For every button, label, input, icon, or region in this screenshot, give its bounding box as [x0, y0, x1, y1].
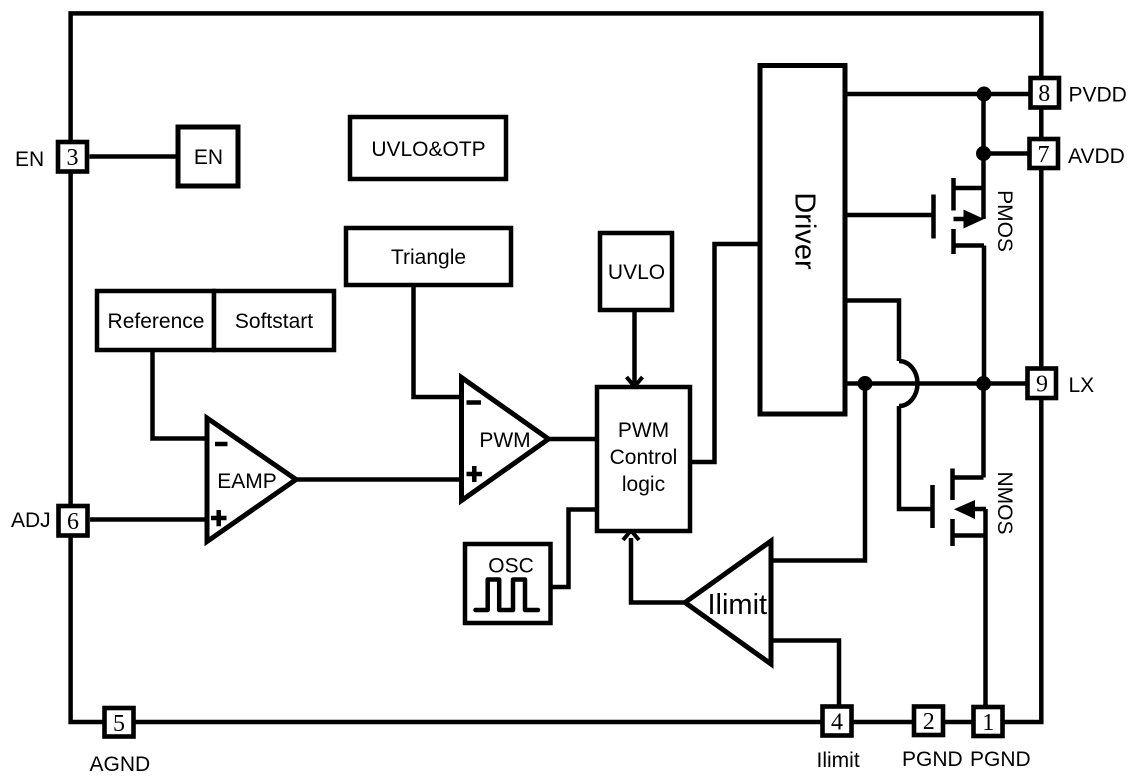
block EN: [178, 127, 238, 186]
wire NMOS source to pin1 PGND: [983, 509, 988, 705]
block Triangle: [346, 228, 511, 285]
wire hop over LX line: [899, 361, 918, 406]
svg-text:3: 3: [67, 145, 79, 171]
wire Driver to PMOS gate: [845, 213, 932, 218]
wire Triangle to PWM inverting input: [414, 285, 462, 397]
svg-text:PVDD: PVDD: [1069, 84, 1127, 107]
pin 1 PGND: [974, 707, 1003, 736]
svg-text:PGND: PGND: [970, 748, 1031, 771]
block Reference: [97, 291, 214, 350]
pin 5 AGND: [105, 708, 134, 737]
svg-text:5: 5: [113, 711, 125, 737]
block Softstart: [214, 291, 334, 350]
wire Reference to EAMP inverting input: [153, 350, 208, 439]
svg-text:Reference: Reference: [108, 310, 205, 333]
wire Ilimit output to PWM control logic: [631, 538, 685, 603]
wire PVDD node down to PMOS source: [981, 94, 986, 219]
svg-text:LX: LX: [1069, 374, 1095, 397]
svg-text:PGND: PGND: [902, 748, 963, 771]
block UVLO&OTP: [350, 117, 506, 179]
svg-text:ADJ: ADJ: [11, 509, 51, 532]
op-amp EAMP: [207, 418, 296, 542]
block OSC: [465, 544, 551, 623]
IC boundary: [71, 13, 1042, 722]
transistor Q2 NMOS: [933, 469, 987, 547]
svg-text:PWM: PWM: [479, 429, 530, 452]
wire Ilimit lower input to pin4: [771, 641, 839, 706]
svg-text:EN: EN: [15, 148, 44, 171]
wire UVLO to PWM control logic: [632, 310, 637, 383]
wire Driver to NMOS gate lower segment: [899, 406, 931, 509]
pin 9 LX: [1028, 369, 1057, 399]
svg-text:EAMP: EAMP: [217, 470, 277, 493]
svg-text:2: 2: [923, 709, 935, 735]
transistor Q1 PMOS body arrow: [964, 210, 985, 229]
svg-text:EN: EN: [194, 146, 223, 169]
svg-text:AVDD: AVDD: [1068, 145, 1125, 168]
svg-text:UVLO: UVLO: [608, 261, 665, 284]
wire PMOS drain to LX: [982, 246, 987, 384]
svg-text:1: 1: [982, 710, 994, 736]
svg-text:7: 7: [1038, 142, 1050, 168]
junction dot AVDD node: [976, 146, 991, 161]
block Driver: [760, 66, 845, 415]
svg-text:UVLO&OTP: UVLO&OTP: [371, 138, 485, 161]
block PWM Control logic: [597, 387, 690, 531]
comparator PWM: [462, 378, 549, 501]
wire PWM output to PWM control logic: [549, 437, 598, 442]
wire AVDD stub pin7: [984, 151, 1029, 156]
wire Driver to PVDD pin8: [845, 92, 1029, 97]
svg-text:Triangle: Triangle: [391, 246, 466, 269]
junction dot LX node right: [976, 376, 991, 391]
wire pin3 to EN block: [90, 154, 179, 159]
pin 6 ADJ: [59, 506, 88, 536]
junction dot PVDD node: [977, 87, 992, 102]
arrowhead UVLO into PWM control logic: [627, 377, 643, 387]
svg-text:8: 8: [1038, 81, 1050, 107]
svg-text:logic: logic: [622, 473, 665, 496]
svg-text:Ilimit: Ilimit: [707, 589, 767, 621]
wire LX to NMOS drain: [981, 384, 986, 478]
pin 4 Ilimit: [823, 707, 852, 736]
pin 8 PVDD: [1031, 78, 1060, 108]
svg-text:PWM: PWM: [618, 419, 669, 442]
svg-text:Driver: Driver: [789, 192, 821, 270]
transistor Q1 PMOS: [934, 178, 985, 254]
wire pin6 ADJ to EAMP non-inverting input: [90, 517, 207, 522]
pin 3 EN: [58, 142, 87, 172]
wire EAMP output to PWM comparator: [296, 477, 462, 482]
wire LX to Ilimit upper input: [771, 384, 865, 561]
wire Driver to NMOS gate upper segment: [845, 301, 899, 362]
svg-text:Ilimit: Ilimit: [817, 749, 860, 772]
transistor Q2 NMOS body arrow: [954, 500, 975, 519]
svg-text:9: 9: [1036, 372, 1048, 398]
svg-text:6: 6: [67, 509, 79, 535]
svg-text:NMOS: NMOS: [993, 472, 1016, 535]
comparator Ilimit: [685, 541, 771, 664]
wire PWM control logic to Driver: [690, 244, 760, 462]
pin 2 PGND: [914, 707, 943, 736]
svg-text:AGND: AGND: [90, 753, 151, 776]
svg-text:OSC: OSC: [488, 555, 534, 578]
svg-text:Softstart: Softstart: [235, 310, 313, 333]
block UVLO: [600, 233, 672, 310]
svg-text:4: 4: [831, 710, 843, 736]
wire OSC to PWM control logic: [551, 510, 598, 588]
junction dot LX node left: [858, 376, 873, 391]
pin 7 AVDD: [1030, 139, 1059, 168]
arrowhead Ilimit into PWM control logic: [623, 531, 639, 541]
svg-text:Control: Control: [610, 446, 678, 469]
wire LX line: [845, 381, 1026, 386]
svg-text:PMOS: PMOS: [993, 190, 1016, 252]
